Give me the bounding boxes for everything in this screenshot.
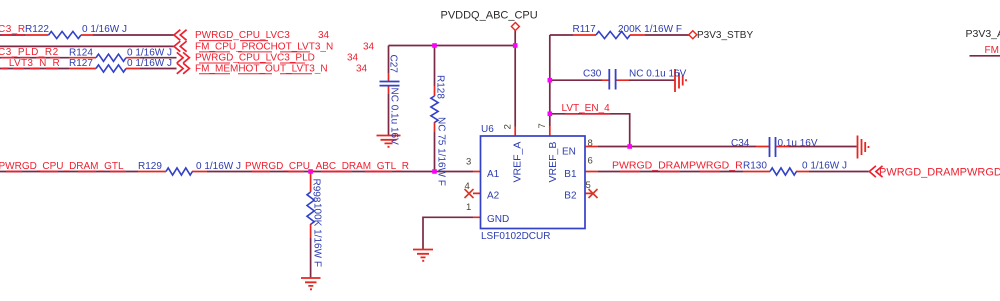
svg-text:P3V3_A: P3V3_A <box>966 28 1000 40</box>
svg-text:0 1/16W J: 0 1/16W J <box>802 160 847 171</box>
svg-text:C34: C34 <box>731 138 750 149</box>
svg-text:8: 8 <box>588 138 593 149</box>
svg-text:34: 34 <box>318 30 330 41</box>
svg-text:B2: B2 <box>564 191 577 202</box>
svg-text:R128: R128 <box>435 75 446 99</box>
svg-text:34: 34 <box>347 53 359 64</box>
svg-text:VREF_B: VREF_B <box>547 142 559 183</box>
svg-text:4: 4 <box>465 181 470 192</box>
svg-text:P3V3_STBY: P3V3_STBY <box>697 30 753 41</box>
svg-text:R127: R127 <box>69 58 93 69</box>
svg-text:7: 7 <box>537 123 548 128</box>
svg-text:C3_R: C3_R <box>0 24 26 35</box>
svg-text:R117: R117 <box>573 24 597 35</box>
svg-text:R124: R124 <box>69 47 93 58</box>
svg-text:VREF_A: VREF_A <box>512 142 524 183</box>
svg-text:R130: R130 <box>743 160 767 171</box>
svg-text:6: 6 <box>588 156 593 167</box>
svg-text:A1: A1 <box>487 169 500 180</box>
svg-text:NC 0.1u 16V: NC 0.1u 16V <box>389 88 400 146</box>
svg-text:PWRGD_DRAMPWRGD_R: PWRGD_DRAMPWRGD_R <box>612 159 743 171</box>
svg-text:R998: R998 <box>311 179 322 203</box>
svg-text:2: 2 <box>503 124 514 129</box>
svg-text:FM_CPU_PROCHOT_LVT3_N: FM_CPU_PROCHOT_LVT3_N <box>195 42 333 53</box>
svg-text:34: 34 <box>363 42 375 53</box>
svg-text:PWRGD_DRAMPWRGD: PWRGD_DRAMPWRGD <box>879 167 1000 179</box>
svg-text:U6: U6 <box>481 124 494 135</box>
svg-text:FM_MEMHOT_OUT_LVT3_N: FM_MEMHOT_OUT_LVT3_N <box>195 63 328 74</box>
svg-text:NC 0.1u 16V: NC 0.1u 16V <box>629 69 687 80</box>
svg-text:NC 75 1/16W F: NC 75 1/16W F <box>436 117 447 186</box>
svg-text:0 1/16W J: 0 1/16W J <box>127 47 172 58</box>
svg-text:_LVT3_N_R: _LVT3_N_R <box>2 58 60 69</box>
svg-text:PWRGD_CPU_LVC3_PLD: PWRGD_CPU_LVC3_PLD <box>195 53 315 64</box>
svg-text:PWRGD_CPU_LVC3: PWRGD_CPU_LVC3 <box>195 30 290 41</box>
svg-text:0 1/16W J: 0 1/16W J <box>196 161 241 172</box>
svg-text:C3_PLD_R2: C3_PLD_R2 <box>0 47 59 58</box>
svg-text:FM: FM <box>985 45 999 56</box>
svg-text:0 1/16W J: 0 1/16W J <box>82 24 127 35</box>
svg-text:LVT_EN_4: LVT_EN_4 <box>562 103 611 114</box>
svg-text:C30: C30 <box>583 69 602 80</box>
svg-text:B1: B1 <box>564 169 577 180</box>
svg-text:R122: R122 <box>25 24 49 35</box>
svg-text:EN: EN <box>562 146 576 157</box>
svg-text:PVDDQ_ABC_CPU: PVDDQ_ABC_CPU <box>441 10 538 22</box>
svg-text:PWRGD_CPU_ABC_DRAM_GTL_R: PWRGD_CPU_ABC_DRAM_GTL_R <box>245 161 409 172</box>
svg-text:3: 3 <box>466 157 471 168</box>
svg-text:200K 1/16W F: 200K 1/16W F <box>618 24 682 35</box>
svg-text:100K 1/16W F: 100K 1/16W F <box>312 203 323 267</box>
svg-text:LSF0102DCUR: LSF0102DCUR <box>481 231 550 242</box>
svg-text:0.1u 16V: 0.1u 16V <box>778 138 818 149</box>
svg-text:A2: A2 <box>487 191 500 202</box>
svg-text:R129: R129 <box>138 161 162 172</box>
svg-text:34: 34 <box>356 63 368 74</box>
svg-text:0 1/16W J: 0 1/16W J <box>127 58 172 69</box>
svg-text:1: 1 <box>466 202 471 213</box>
svg-text:PWRGD_CPU_DRAM_GTL: PWRGD_CPU_DRAM_GTL <box>0 161 124 172</box>
svg-text:C27: C27 <box>388 55 399 74</box>
svg-text:5: 5 <box>586 180 591 191</box>
svg-text:GND: GND <box>487 214 509 225</box>
